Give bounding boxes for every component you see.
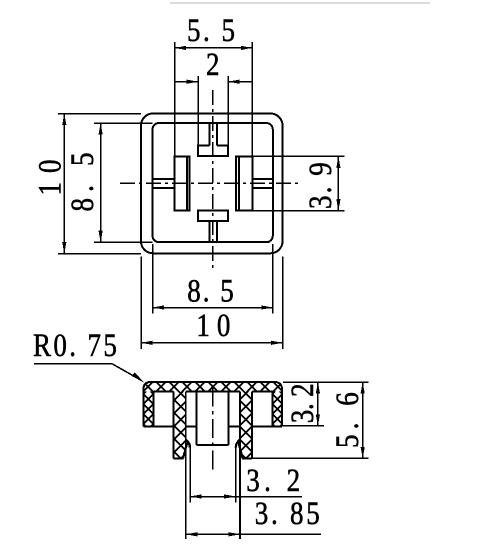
stem outer right edge xyxy=(251,392,253,459)
ext 8.5-left bottom xyxy=(94,241,153,243)
arrow 8.5-bottom left xyxy=(153,305,165,309)
svg-text:2: 2 xyxy=(206,45,220,82)
arrow 3.2-bottom left xyxy=(190,494,202,498)
ext 5.5 left xyxy=(174,42,176,156)
top slot narrow part xyxy=(210,123,217,146)
hatch top strip xyxy=(143,382,282,392)
hole right wall xyxy=(227,392,229,445)
svg-text:3. 2: 3. 2 xyxy=(283,383,320,423)
dimension texts xyxy=(31,11,366,531)
dim line 10-bottom xyxy=(141,342,283,344)
arrow 2 left xyxy=(187,80,199,84)
dim line 8.5-left xyxy=(100,123,102,242)
top view inner cap edge rounded square xyxy=(153,123,273,242)
dim line 2 xyxy=(175,81,253,83)
arrow leader R0.75 xyxy=(132,373,145,383)
dim line 3.85 xyxy=(186,533,321,535)
arrow 5.5 right xyxy=(241,46,253,50)
bottom T stem xyxy=(210,221,218,242)
svg-text:3. 85: 3. 85 xyxy=(255,494,320,531)
right foot inner chamfer xyxy=(239,443,243,459)
ext 8.5-bottom right xyxy=(272,244,274,313)
ext section top right xyxy=(283,381,369,383)
left foot inner chamfer xyxy=(183,443,187,459)
dim line 3.2-bottom xyxy=(190,496,302,498)
section top plate outline xyxy=(143,382,282,426)
ext 3.9 bottom xyxy=(252,210,344,212)
ext 2 right xyxy=(227,76,229,146)
right foot bottom xyxy=(242,457,252,459)
stem right inner wall + 3.85 ext xyxy=(239,392,241,539)
arrow 8.5-bottom right xyxy=(261,305,273,309)
plate bottom edges xyxy=(143,425,282,427)
ext section bottom right xyxy=(252,457,369,459)
vertical centerline lower xyxy=(212,388,214,473)
ext 5.5 right xyxy=(251,42,253,156)
right foot claw curve xyxy=(236,440,240,448)
hatch fills xyxy=(143,382,282,459)
arrow 3.2-bottom right xyxy=(224,494,236,498)
left slot tab xyxy=(175,156,190,210)
dim line 3.9 xyxy=(337,156,339,210)
hole left wall xyxy=(196,392,198,445)
center lines xyxy=(120,90,298,472)
arrow 5.6 bottom xyxy=(361,447,365,459)
arrow 10-bottom right xyxy=(271,341,283,345)
left notch box xyxy=(153,179,175,188)
svg-text:R0. 75: R0. 75 xyxy=(33,326,117,363)
left wall inner edge xyxy=(152,392,154,427)
ext 10-bottom right xyxy=(282,257,284,349)
ext 3.2-bottom left xyxy=(189,447,191,503)
right slot tab xyxy=(236,156,252,210)
faint scan artifact line top xyxy=(170,2,430,4)
arrow 5.5 left xyxy=(175,46,187,50)
ext 3.2-bottom right xyxy=(235,447,237,503)
ext 3.9 top xyxy=(252,155,344,157)
right wall inner edge xyxy=(272,392,274,427)
top slot wide tab xyxy=(198,146,228,156)
left foot bottom xyxy=(174,457,184,459)
section plate underside line xyxy=(153,391,272,393)
hatch left column + foot xyxy=(174,392,186,459)
arrow 10-bottom left xyxy=(141,341,153,345)
ext 2 left xyxy=(197,76,199,146)
stem outer left edge xyxy=(173,392,175,459)
arrow 3.85 right xyxy=(229,532,241,536)
right notch box xyxy=(252,179,272,188)
ext 10-left bottom xyxy=(58,253,141,255)
hatch right wall xyxy=(273,392,282,427)
hatch right column + foot xyxy=(240,392,252,459)
arrow 5.6 top xyxy=(361,382,365,394)
arrow 10-left bottom xyxy=(62,242,66,254)
arrow 3.85 left xyxy=(186,532,198,536)
hatch left wall xyxy=(143,392,153,427)
dim line 5.6 xyxy=(362,382,364,458)
dim line 5.5 xyxy=(175,47,253,49)
leader R0.75 xyxy=(34,364,142,381)
arrowheads xyxy=(62,46,365,537)
dimension extension lines xyxy=(58,42,369,503)
arrow 8.5-left top xyxy=(99,123,103,135)
ext 10-left top xyxy=(58,113,141,115)
arrow 2 right xyxy=(228,80,240,84)
dim line 8.5-bottom xyxy=(153,307,273,309)
dim line 10-left xyxy=(63,114,65,254)
arrow 10-left top xyxy=(62,114,66,126)
left slot inner line xyxy=(186,156,188,210)
arrow 3.2-right bottom xyxy=(316,414,320,426)
ext 10-bottom left xyxy=(140,257,142,349)
ext section mid right xyxy=(283,425,324,427)
hole bottom xyxy=(197,444,229,446)
stem left inner wall + 3.85 ext xyxy=(185,392,187,539)
dim line 3.2-right xyxy=(317,382,319,426)
horizontal centerline xyxy=(120,182,298,184)
right slot inner line xyxy=(238,156,240,210)
arrow 3.9 bottom xyxy=(336,199,340,211)
vertical centerline upper xyxy=(212,90,214,270)
arrow 3.2-right top xyxy=(316,382,320,394)
left foot claw curve xyxy=(186,440,190,448)
arrow 8.5-left bottom xyxy=(99,231,103,243)
ext 8.5-bottom left xyxy=(152,244,154,313)
arrow 3.9 top xyxy=(336,156,340,168)
bottom T wide tab xyxy=(198,211,228,221)
top view outer body rounded square xyxy=(141,114,283,254)
dimension lines xyxy=(34,48,363,534)
ext 8.5-left top xyxy=(94,122,153,124)
